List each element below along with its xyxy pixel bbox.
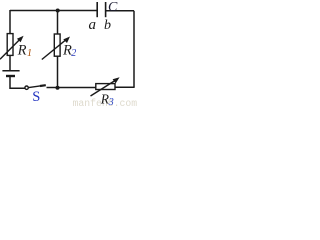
arrowhead R3 [113,77,120,83]
wire right vertical [133,11,135,88]
label R2 [62,42,76,59]
svg-text:a: a [89,17,97,33]
label R1 [17,42,32,59]
resistor R2 [42,34,68,60]
svg-text:R: R [17,42,27,58]
wire left vertical lower [10,77,25,89]
junction dot top [56,9,60,13]
wire capacitor to right corner [106,10,135,12]
wire bottom middle [47,87,96,89]
svg-text:2: 2 [71,48,76,59]
wire top [10,10,97,12]
watermark [73,98,138,109]
resistor R1 [0,34,21,60]
wire left vertical middle [9,55,11,70]
svg-text:C: C [108,0,118,15]
switch S [25,85,46,89]
wire middle branch upper [57,11,59,35]
wire left vertical upper [9,10,11,34]
battery [2,71,19,76]
svg-text:S: S [32,89,40,105]
capacitor C plates [97,2,105,17]
svg-text:1: 1 [27,48,32,59]
arrowhead R1 [17,36,24,43]
svg-text:3: 3 [108,97,114,107]
wire middle branch lower [57,56,59,87]
junction dot bottom [56,86,60,90]
rheostat R3 [91,80,117,97]
arrowhead R2 [63,37,70,44]
wire bottom right [115,86,135,88]
label R3 [100,91,114,108]
svg-text:b: b [104,18,111,33]
